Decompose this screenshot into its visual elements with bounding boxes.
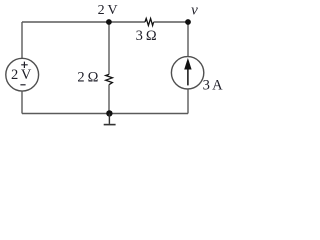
- wire middle vertical lower: [108, 85, 110, 114]
- arrow of current source (pointing up): [187, 66, 189, 85]
- current source I1 circle: [171, 57, 203, 89]
- wire left vertical lower: [21, 91, 23, 113]
- svg-text:2 Ω: 2 Ω: [77, 70, 98, 86]
- node dot v (top right junction): [185, 19, 191, 25]
- wire right vertical lower: [187, 89, 189, 114]
- plus sign of V1: [21, 62, 28, 68]
- ground stem: [108, 114, 110, 124]
- svg-text:3 A: 3 A: [203, 77, 223, 93]
- resistor R1 3 ohm zigzag: [145, 19, 154, 26]
- resistor R2 2 ohm zigzag (vertical): [106, 74, 113, 84]
- svg-text:2 V: 2 V: [11, 67, 32, 83]
- svg-text:3 Ω: 3 Ω: [136, 28, 157, 44]
- voltage source V1 circle: [6, 58, 39, 91]
- svg-text:v: v: [191, 2, 198, 18]
- minus sign of V1: [20, 84, 25, 86]
- wire middle vertical upper: [108, 22, 110, 74]
- node dot ground junction (bottom middle): [106, 110, 112, 116]
- wire top right segment (resistor to node v): [154, 21, 188, 23]
- wire top left segment (node 2V to resistor): [22, 21, 145, 23]
- wire bottom: [22, 113, 188, 115]
- node dot 2V (top middle junction): [106, 19, 112, 25]
- ground bar: [104, 124, 116, 126]
- wire right vertical upper: [187, 22, 189, 57]
- svg-text:2 V: 2 V: [98, 3, 118, 18]
- wire left vertical upper: [21, 22, 23, 58]
